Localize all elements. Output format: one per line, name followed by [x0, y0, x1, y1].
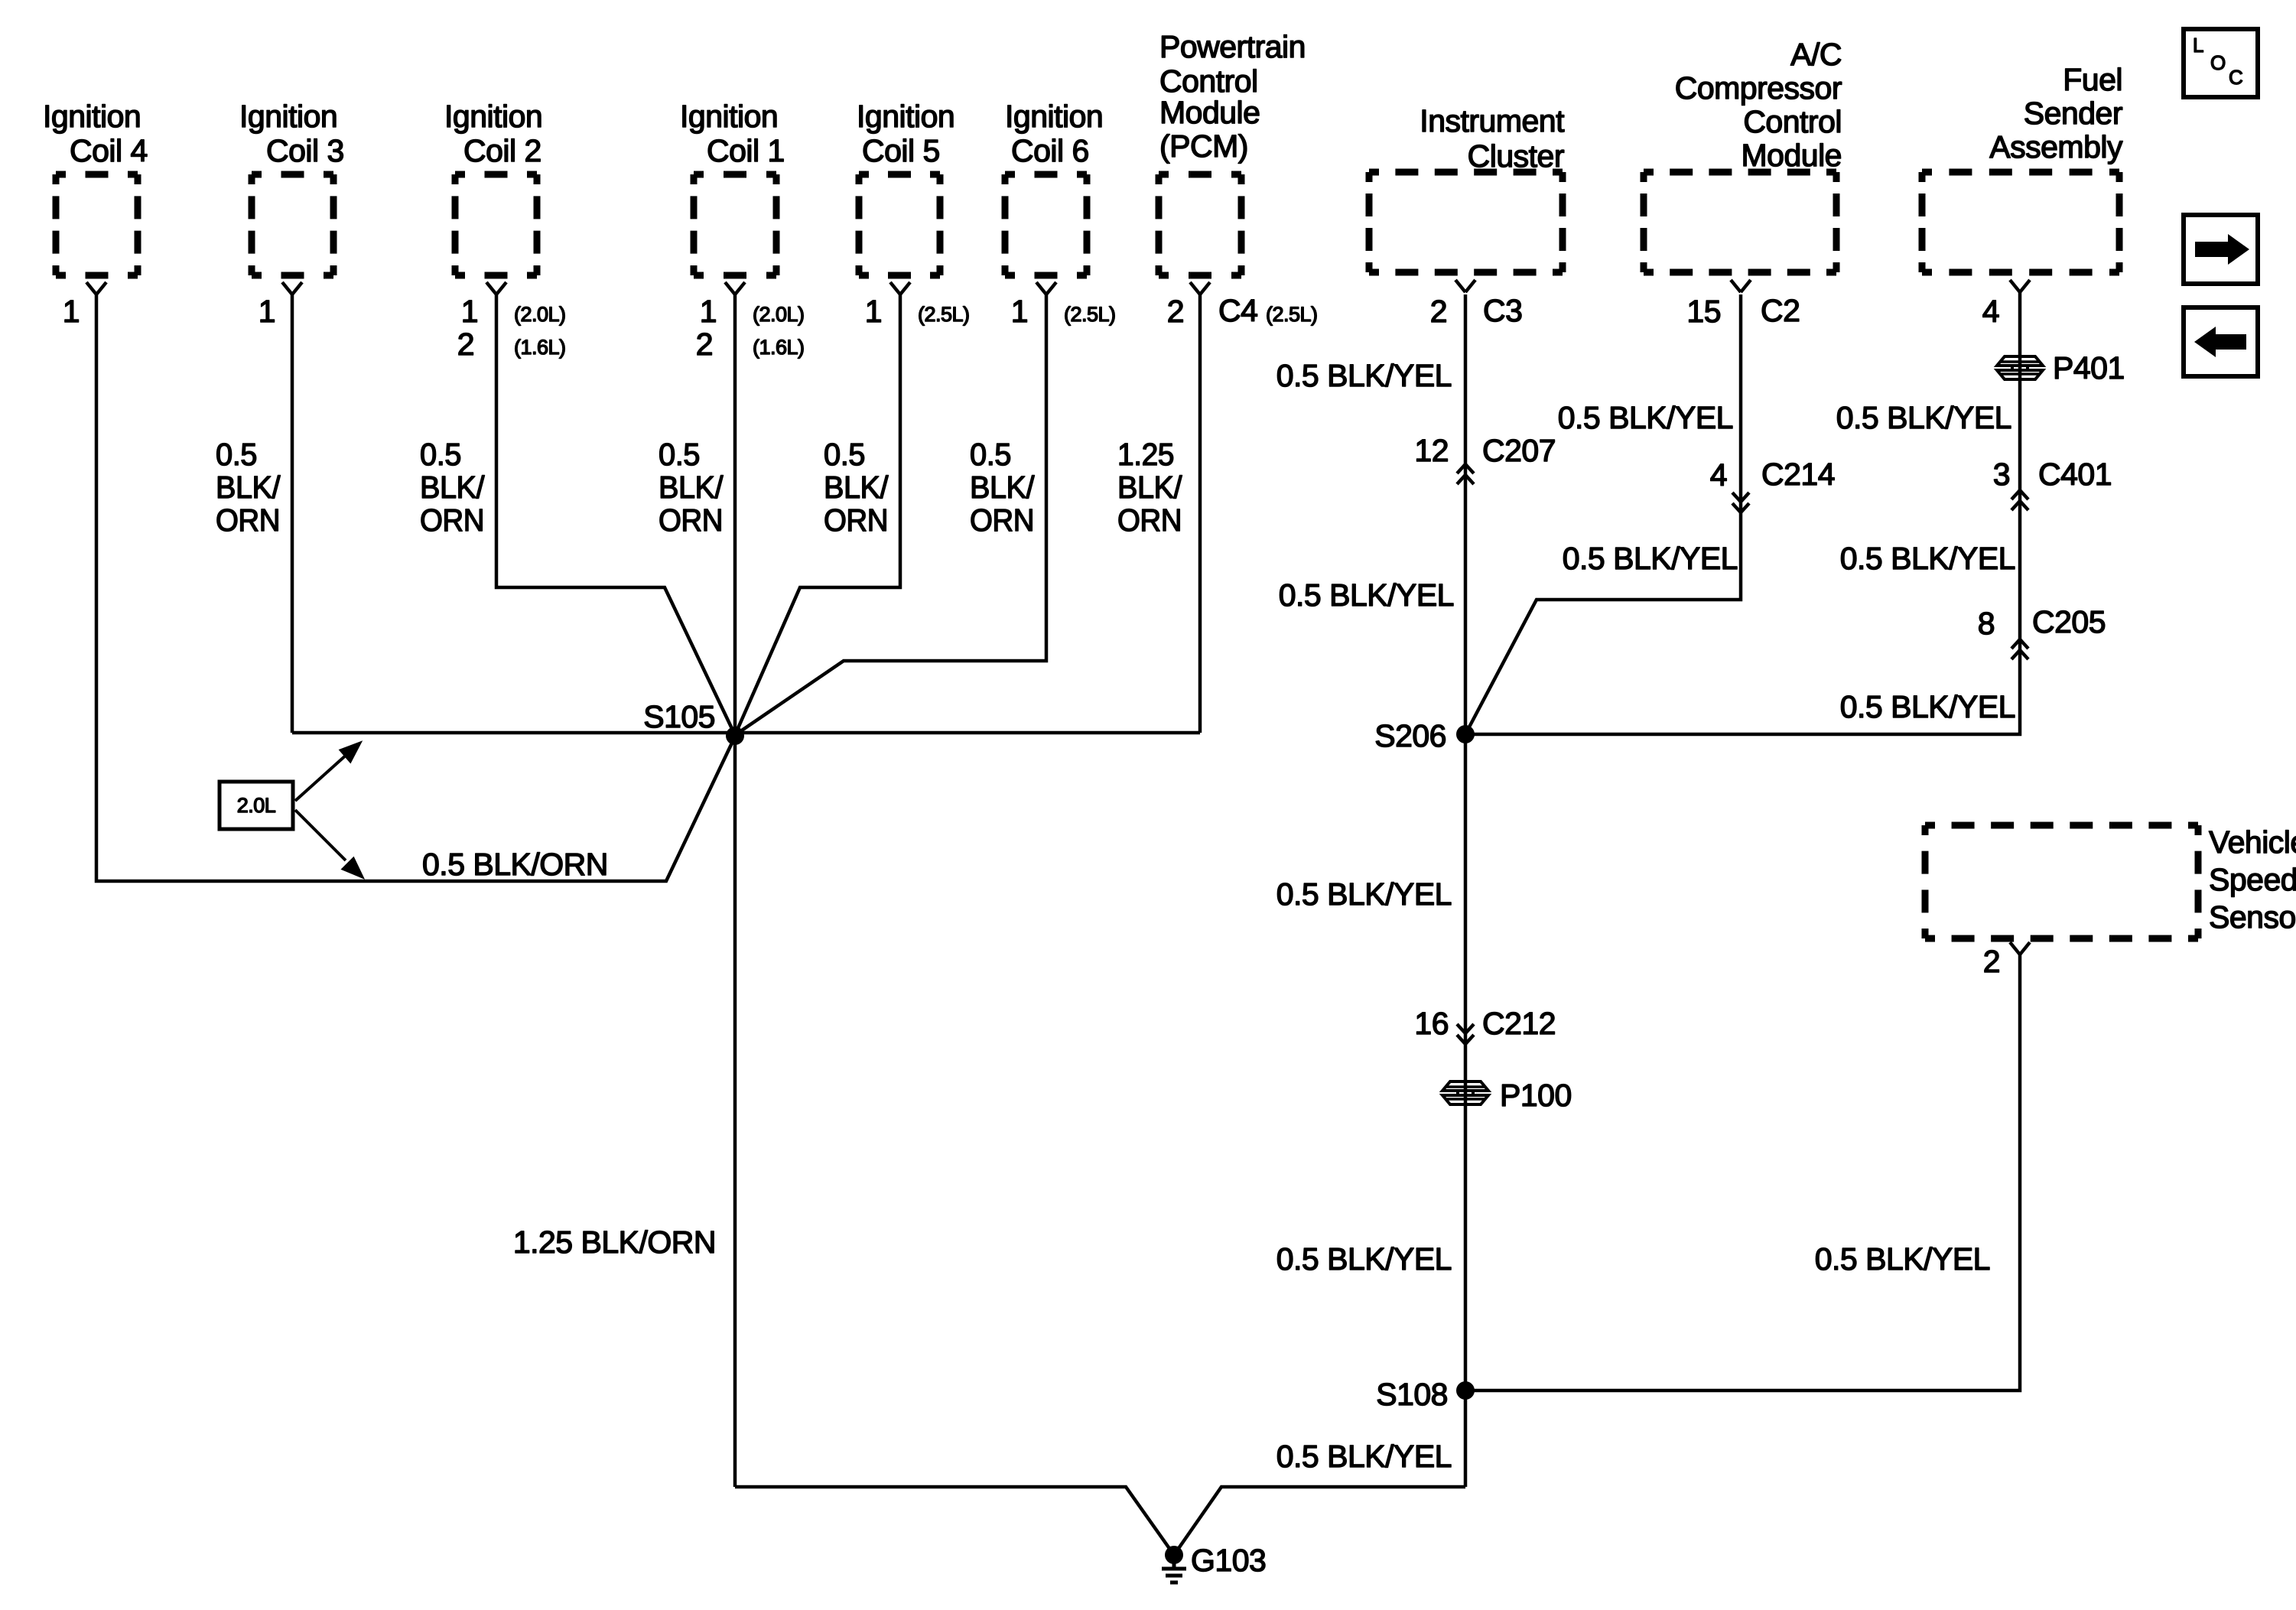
svg-text:0.5 BLK/YEL: 0.5 BLK/YEL — [1276, 358, 1452, 393]
svg-text:0.5 BLK/YEL: 0.5 BLK/YEL — [1276, 877, 1452, 912]
svg-text:1: 1 — [63, 294, 80, 329]
splice S108 — [1456, 1381, 1475, 1400]
left arrow glyph — [2194, 327, 2246, 357]
svg-text:0.5 BLK/YEL: 0.5 BLK/YEL — [1558, 400, 1733, 435]
svg-text:P100: P100 — [1500, 1078, 1572, 1113]
svg-text:1: 1 — [700, 294, 717, 329]
svg-text:(2.0L): (2.0L) — [514, 303, 566, 326]
wire Ignition Coil 1 / S105 to ground junction — [733, 294, 737, 1487]
svg-text:2: 2 — [1983, 944, 2000, 979]
svg-text:2: 2 — [457, 327, 474, 362]
svg-text:16: 16 — [1414, 1006, 1449, 1041]
fork pin 2 PCM C4 — [1190, 282, 1210, 294]
fork pin 1 Ignition Coil 3 — [282, 282, 302, 294]
connector box PCM — [1159, 174, 1241, 275]
wire ground feed right to G103 — [1174, 1487, 1465, 1555]
connector box A/C Compressor Control Module — [1644, 172, 1836, 272]
fork pin Ignition Coil 2 — [486, 282, 506, 294]
fork pin Ignition Coil 1 — [725, 282, 745, 294]
svg-text:2.0L: 2.0L — [237, 794, 276, 817]
wire Ignition Coil 4 to S105 (0.5 BLK/ORN) — [96, 294, 735, 881]
fork pin 2 Instrument Cluster C3 — [1455, 280, 1475, 292]
svg-text:S105: S105 — [643, 699, 715, 734]
svg-text:15: 15 — [1686, 294, 1721, 329]
svg-text:0.5 BLK/YEL: 0.5 BLK/YEL — [1276, 1241, 1452, 1277]
svg-text:C2: C2 — [1761, 293, 1800, 328]
svg-text:(2.5L): (2.5L) — [1266, 303, 1318, 326]
fork pin 2 Vehicle Speed Sensor — [2010, 942, 2030, 955]
svg-text:C401: C401 — [2038, 457, 2112, 492]
splice S105 — [726, 727, 744, 745]
svg-text:(2.5L): (2.5L) — [918, 303, 970, 326]
svg-text:8: 8 — [1978, 606, 1995, 641]
connector box Ignition Coil 5 — [859, 174, 940, 275]
svg-text:S108: S108 — [1376, 1377, 1448, 1412]
LOC reference box — [2184, 29, 2258, 97]
svg-text:IgnitionCoil 6: IgnitionCoil 6 — [1005, 99, 1103, 168]
right arrow box — [2184, 215, 2258, 284]
connector box Ignition Coil 1 — [694, 174, 776, 275]
connector box Ignition Coil 6 — [1005, 174, 1087, 275]
svg-text:C207: C207 — [1482, 433, 1556, 468]
svg-text:VehicleSpeedSensor: VehicleSpeedSensor — [2209, 825, 2296, 935]
svg-text:3: 3 — [1993, 457, 2010, 492]
svg-text:0.5 BLK/YEL: 0.5 BLK/YEL — [1840, 541, 2015, 576]
svg-text:(2.5L): (2.5L) — [1064, 303, 1116, 326]
wire Ignition Coil 3 to S105 horizontal run — [291, 294, 294, 733]
pass-through grommet P401 — [1997, 356, 2043, 379]
svg-text:C3: C3 — [1483, 293, 1522, 328]
2.0L callout arrow lower — [295, 810, 362, 877]
fork pin 15 A/C C2 — [1731, 280, 1751, 292]
fork pin 1 Ignition Coil 4 — [86, 282, 106, 294]
wire PCM C4 down to S105 level — [1198, 294, 1202, 733]
wire S105 horizontal bus — [292, 731, 1200, 735]
connector box Ignition Coil 3 — [252, 174, 333, 275]
splice S206 — [1456, 725, 1475, 743]
svg-text:(2.0L): (2.0L) — [753, 303, 805, 326]
svg-text:0.5 BLK/YEL: 0.5 BLK/YEL — [1276, 1439, 1452, 1474]
ground symbol G103 — [1162, 1555, 1186, 1582]
fork pin 1 Ignition Coil 5 — [890, 282, 910, 294]
svg-text:G103: G103 — [1191, 1543, 1266, 1578]
svg-text:0.5 BLK/ORN: 0.5 BLK/ORN — [422, 847, 608, 882]
fork pin 1 Ignition Coil 6 — [1036, 282, 1056, 294]
pass-through grommet P100 — [1442, 1081, 1488, 1104]
2.0L callout box — [220, 782, 293, 829]
svg-text:0.5 BLK/YEL: 0.5 BLK/YEL — [1836, 400, 2011, 435]
fork pin 4 Fuel Sender — [2010, 280, 2030, 292]
connector box Fuel Sender Assembly — [1922, 172, 2119, 272]
in-line connector C212 arrows — [1457, 1024, 1474, 1044]
svg-text:0.5 BLK/YEL: 0.5 BLK/YEL — [1279, 577, 1454, 613]
connector box Vehicle Speed Sensor — [1925, 825, 2198, 938]
wire ground feed left to G103 — [735, 1487, 1174, 1555]
connector box Ignition Coil 2 — [455, 174, 537, 275]
svg-text:1: 1 — [1011, 294, 1028, 329]
connector box Instrument Cluster — [1369, 172, 1563, 272]
2.0L callout arrow upper — [295, 743, 359, 801]
svg-text:C4: C4 — [1218, 293, 1257, 328]
wire Fuel Sender down through P401 C401 C205 to S206 — [1465, 291, 2020, 734]
svg-text:C214: C214 — [1761, 457, 1835, 492]
svg-text:1: 1 — [259, 294, 275, 329]
svg-text:0.5 BLK/YEL: 0.5 BLK/YEL — [1840, 689, 2015, 724]
svg-text:1.25BLK/ORN: 1.25BLK/ORN — [1117, 437, 1182, 538]
in-line connector C207 arrows — [1457, 464, 1474, 484]
svg-text:0.5 BLK/YEL: 0.5 BLK/YEL — [1815, 1241, 1990, 1277]
svg-text:4: 4 — [1710, 457, 1727, 493]
svg-text:(1.6L): (1.6L) — [753, 336, 805, 359]
svg-text:2: 2 — [696, 327, 713, 362]
svg-text:(1.6L): (1.6L) — [514, 336, 566, 359]
wire Vehicle Speed Sensor to S108 — [1465, 952, 2020, 1390]
svg-text:1: 1 — [461, 294, 478, 329]
wire Ignition Coil 5 to S105 — [735, 294, 900, 735]
svg-text:C205: C205 — [2032, 604, 2106, 639]
in-line connector C214 arrows — [1732, 493, 1749, 512]
svg-text:S206: S206 — [1374, 718, 1446, 753]
svg-text:1: 1 — [865, 294, 882, 329]
svg-text:C212: C212 — [1482, 1006, 1556, 1041]
in-line connector C205 arrows — [2011, 639, 2028, 659]
svg-text:1.25 BLK/ORN: 1.25 BLK/ORN — [513, 1225, 716, 1260]
in-line connector C401 arrows — [2011, 490, 2028, 510]
wire Ignition Coil 6 to S105 — [735, 294, 1046, 735]
right arrow glyph — [2195, 234, 2249, 265]
wire Ignition Coil 2 to S105 — [496, 294, 735, 735]
left arrow box — [2184, 307, 2258, 376]
connector box Ignition Coil 4 — [56, 174, 138, 275]
svg-text:0.5 BLK/YEL: 0.5 BLK/YEL — [1563, 541, 1738, 576]
ground dot G103 — [1165, 1546, 1183, 1564]
svg-text:P401: P401 — [2053, 350, 2125, 385]
svg-text:12: 12 — [1414, 433, 1449, 468]
svg-text:2: 2 — [1430, 294, 1447, 329]
wire Instrument Cluster C3 down through S206 S108 to ground — [1464, 294, 1468, 1487]
wire A/C C2 down through C214 to S206 — [1465, 294, 1741, 734]
svg-text:2: 2 — [1167, 294, 1184, 329]
svg-text:4: 4 — [1982, 294, 1999, 329]
